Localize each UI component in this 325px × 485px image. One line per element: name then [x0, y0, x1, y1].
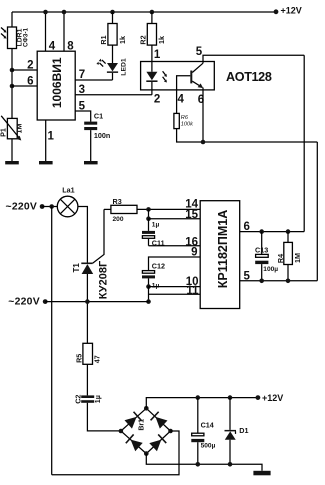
thyristor T1 KU208G [72, 260, 110, 299]
svg-text:R4: R4 [276, 254, 285, 263]
wire R1 to LED1 [112, 45, 114, 63]
svg-text:15: 15 [185, 209, 198, 221]
svg-text:C1: C1 [94, 112, 103, 121]
node junction rail end [146, 299, 151, 304]
resistor R1 1k [99, 10, 127, 45]
node junction pin15 [146, 216, 151, 221]
svg-text:47: 47 [93, 355, 102, 363]
wire bridge top to +12V line [146, 398, 258, 409]
wire pin 5 line [75, 111, 91, 122]
op-amp U1 timer 1006VI1 body [37, 51, 75, 120]
zener diode D1 [225, 395, 249, 466]
svg-text:~220V: ~220V [8, 297, 40, 308]
optocoupler U2 AOT128 body [141, 62, 272, 90]
wire pin 6 line [12, 85, 37, 87]
wire lamp to T1 anode [78, 207, 88, 263]
svg-text:C12: C12 [152, 261, 165, 270]
photoresistor LDR1 [1, 27, 30, 49]
node ~220V lower terminal [8, 297, 47, 308]
svg-text:Br1: Br1 [139, 419, 146, 431]
IC U3 KR1182PM1A body [200, 201, 240, 309]
wire pin9 line [149, 257, 201, 271]
svg-text:7: 7 [79, 69, 85, 81]
diode Br1 top-right [150, 411, 168, 429]
wire pin10 line [149, 286, 201, 288]
wire pin 8 [63, 12, 65, 51]
ground under C1 [84, 161, 98, 164]
LED LED1 [96, 58, 127, 76]
LED inside AOT128 [146, 62, 167, 83]
wire LED1 to pin7 [112, 73, 114, 80]
resistor R3 200 [104, 197, 200, 223]
capacitor C14 500u [191, 395, 215, 466]
wire bridge bottom to ground rail [146, 454, 262, 471]
resistor R4 1M [276, 229, 302, 283]
node junction pin2 tap [10, 68, 15, 73]
svg-text:+12V: +12V [281, 5, 302, 15]
svg-text:1006ВИ1: 1006ВИ1 [50, 57, 64, 108]
capacitor C12 1u [142, 261, 165, 289]
svg-text:R2: R2 [138, 35, 147, 44]
wire LDR1 to P1 [11, 49, 13, 119]
resistor R5 47 [74, 343, 101, 364]
svg-text:1: 1 [48, 131, 55, 143]
svg-text:La1: La1 [62, 186, 74, 195]
svg-text:100n: 100n [94, 131, 110, 140]
svg-text:500µ: 500µ [201, 442, 216, 449]
capacitor C1 100n [84, 112, 110, 140]
wire pin6 right line [240, 231, 305, 233]
node ~220V upper terminal [6, 202, 45, 213]
svg-text:1µ: 1µ [152, 222, 160, 229]
svg-text:~220V: ~220V [6, 202, 38, 213]
svg-text:R1: R1 [99, 35, 108, 44]
svg-text:4: 4 [178, 94, 185, 106]
wire C1 to ground [90, 130, 92, 161]
svg-text:1k: 1k [118, 36, 127, 44]
svg-text:5: 5 [79, 100, 86, 112]
svg-text:D1: D1 [239, 426, 248, 435]
node junction pin10 [146, 284, 151, 289]
svg-text:100µ: 100µ [263, 266, 278, 273]
svg-text:LED1: LED1 [120, 58, 127, 76]
wire R6 to emitter junction line [177, 129, 318, 142]
wire pin15 line [149, 218, 201, 220]
svg-text:R6: R6 [181, 115, 189, 121]
svg-text:AOT128: AOT128 [226, 70, 272, 84]
svg-text:3: 3 [79, 84, 85, 96]
wire pin5 right line [240, 280, 318, 282]
svg-text:1µ: 1µ [93, 395, 102, 403]
node junction R3/pin14 [146, 207, 151, 212]
wire pin 3 line [75, 94, 152, 96]
svg-text:1: 1 [154, 49, 161, 61]
svg-text:КР1182ПМ1А: КР1182ПМ1А [216, 210, 230, 288]
wire T1 gate [93, 209, 104, 263]
svg-text:5: 5 [196, 46, 203, 58]
capacitor C13 100u [255, 229, 278, 283]
svg-text:4: 4 [49, 41, 56, 53]
node pin4 rail junction [43, 10, 48, 15]
bridge rectifier Br1 [119, 406, 173, 456]
svg-text:КУ208Г: КУ208Г [98, 260, 110, 299]
wire right vertical from emitter line [316, 142, 318, 281]
wire pin 4 [45, 12, 47, 51]
wire pin 2 line [12, 69, 37, 71]
svg-text:2: 2 [154, 94, 160, 106]
wire C12 branch down to rail [148, 287, 150, 302]
svg-text:5: 5 [244, 270, 251, 282]
svg-text:C13: C13 [255, 245, 268, 254]
svg-text:C14: C14 [201, 420, 214, 429]
potentiometer P1 1M [0, 116, 24, 141]
svg-text:1k: 1k [157, 36, 166, 44]
resistor R2 1k [138, 10, 166, 45]
wire AOT pin4 base down [176, 90, 178, 114]
node junction pin6 tap [10, 84, 15, 89]
wire pin14 to pin15 [148, 209, 150, 218]
wire right vertical from AOT pin5 [303, 55, 305, 231]
svg-text:P1: P1 [0, 128, 8, 137]
wire pin16 line [149, 245, 201, 247]
svg-text:8: 8 [67, 41, 74, 53]
wire R5 to C2 [86, 364, 88, 395]
wire T1 cathode down [86, 274, 88, 343]
wire AOT pin2 to pin3 line [151, 82, 153, 95]
svg-text:200: 200 [113, 216, 124, 223]
svg-text:9: 9 [191, 247, 197, 259]
svg-text:T1: T1 [72, 263, 81, 273]
capacitor C2 1u [74, 395, 103, 404]
node junction pin6/R6 [201, 140, 206, 145]
ground bottom right [253, 471, 270, 476]
wire left column top [11, 12, 13, 27]
wire ~220V to lamp [42, 206, 57, 208]
svg-text:1M: 1M [293, 253, 302, 263]
svg-text:1M: 1M [15, 124, 24, 134]
wire C2 to bridge left [87, 403, 121, 431]
wire pin 7 line [75, 79, 112, 81]
node pin8 rail junction [62, 10, 67, 15]
diode Br1 bottom-right [149, 434, 167, 452]
wire ~220V lower rail [45, 301, 148, 303]
svg-text:6: 6 [27, 76, 33, 88]
svg-text:R5: R5 [74, 354, 83, 363]
node junction T1 cathode on rail [85, 299, 90, 304]
wire AOT pin6 emitter down [202, 90, 204, 142]
diode Br1 bottom-left [125, 434, 143, 452]
node +12V lower terminal [256, 393, 284, 403]
svg-text:2: 2 [27, 60, 33, 72]
svg-text:СФ3-1: СФ3-1 [23, 27, 30, 47]
svg-text:R3: R3 [113, 197, 122, 206]
svg-text:C2: C2 [74, 395, 83, 404]
wire AOT pin5 collector up and right [203, 55, 304, 63]
wire pin 1 to ground [45, 120, 47, 161]
phototransistor inside AOT128 [177, 63, 204, 90]
wire bridge right to bottom loop [52, 431, 179, 475]
node junction left AC branch [49, 204, 54, 209]
wire +12V top rail [12, 11, 276, 13]
ground left [5, 161, 19, 164]
svg-text:+12V: +12V [262, 393, 283, 403]
diode Br1 top-left [124, 411, 142, 429]
wire pin11 line [149, 293, 201, 295]
node +12V top terminal [274, 5, 302, 15]
capacitor C11 1u [142, 219, 165, 248]
svg-text:100k: 100k [181, 122, 194, 128]
svg-text:6: 6 [244, 221, 250, 233]
resistor R6 100k [174, 113, 194, 128]
lamp La1 [57, 186, 78, 217]
wire long left vertical [51, 207, 53, 475]
svg-text:11: 11 [186, 285, 199, 297]
wire P1 to ground [11, 139, 13, 161]
ground under pin 1 [39, 161, 53, 164]
wire R2 to optocoupler pin1 [151, 45, 153, 61]
